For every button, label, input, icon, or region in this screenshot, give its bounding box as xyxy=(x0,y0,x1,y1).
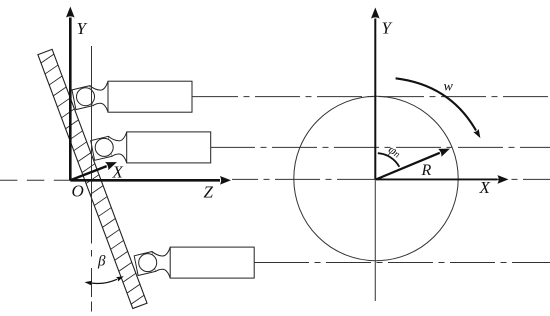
svg-text:O: O xyxy=(72,182,84,201)
svg-text:Y: Y xyxy=(382,19,393,38)
svg-text:w: w xyxy=(444,80,454,95)
svg-text:X: X xyxy=(112,163,124,182)
svg-text:Y: Y xyxy=(77,19,88,38)
svg-text:X: X xyxy=(479,178,491,197)
svg-text:R: R xyxy=(421,162,432,179)
svg-text:β: β xyxy=(97,254,106,270)
svg-text:Z: Z xyxy=(204,183,214,202)
